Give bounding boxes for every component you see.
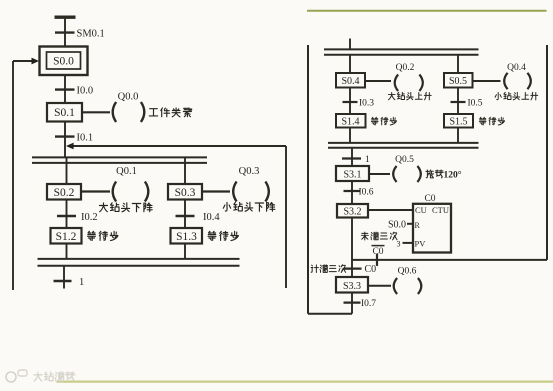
label 小钻头下降 xyxy=(223,203,230,212)
divergence double line xyxy=(32,156,207,158)
svg-text:C0: C0 xyxy=(424,194,435,204)
svg-text:120°: 120° xyxy=(444,170,462,181)
svg-text:I0.4: I0.4 xyxy=(203,212,220,223)
wire S0.0 to S0.1 xyxy=(64,75,66,103)
svg-text:3: 3 xyxy=(397,240,401,249)
wire S0.1 to coil xyxy=(82,111,110,113)
svg-text:Q0.0: Q0.0 xyxy=(118,92,139,103)
divergence double line xyxy=(324,48,479,50)
step S1.2 xyxy=(51,228,82,244)
label 等待步 xyxy=(479,117,486,125)
svg-text:S1.4: S1.4 xyxy=(341,116,359,127)
transition SM0.1 xyxy=(55,31,75,33)
svg-text:1: 1 xyxy=(365,155,370,165)
svg-text:S1.5: S1.5 xyxy=(449,116,467,127)
loopback wire (not-3-times) xyxy=(352,259,547,261)
svg-text:Q0.6: Q0.6 xyxy=(398,267,417,277)
green divider bottom xyxy=(57,381,553,383)
wire branch 1 xyxy=(349,55,351,73)
transition I0.2 xyxy=(57,215,76,217)
coil Q0.4 xyxy=(504,73,507,89)
label 小钻头上升 xyxy=(495,92,501,99)
wire S3.3 to coil xyxy=(368,285,391,287)
coil Q0.5 xyxy=(393,166,396,182)
label C0 overbar xyxy=(372,245,385,247)
svg-text:CU: CU xyxy=(415,205,427,215)
initial step S0.0 (double box) xyxy=(40,47,88,76)
svg-text:S3.2: S3.2 xyxy=(343,207,361,218)
entry stub xyxy=(349,39,351,51)
label 工件夹紧 xyxy=(149,109,157,116)
right loop wire xyxy=(546,45,548,260)
wire S0.2 to coil xyxy=(81,190,110,192)
transition I0.4 xyxy=(176,215,195,217)
step S3.3 xyxy=(336,277,368,293)
transition I0.0 xyxy=(55,88,75,90)
convergence double line xyxy=(38,258,240,260)
step S0.3 xyxy=(168,184,202,200)
step S0.5 xyxy=(444,73,473,88)
wire branch 2 xyxy=(184,157,186,184)
svg-text:S3.3: S3.3 xyxy=(343,281,361,292)
wire S3.1 to coil xyxy=(369,173,390,175)
wire below convergence xyxy=(63,266,65,289)
step S1.4 xyxy=(336,114,366,128)
svg-text:Q0.4: Q0.4 xyxy=(507,63,526,73)
step S1.3 xyxy=(171,228,203,244)
svg-text:S0.4: S0.4 xyxy=(341,76,359,87)
svg-text:CTU: CTU xyxy=(432,205,449,215)
svg-text:I0.0: I0.0 xyxy=(77,85,94,96)
svg-text:S0.0: S0.0 xyxy=(388,219,406,230)
transition I0.7 xyxy=(344,302,361,304)
svg-text:C0: C0 xyxy=(372,247,383,257)
counter C0 box (CTU) xyxy=(413,204,451,253)
svg-text:Q0.5: Q0.5 xyxy=(395,155,414,165)
svg-text:SM0.1: SM0.1 xyxy=(77,29,105,40)
return wire with arrow into I0.1 node xyxy=(73,145,286,147)
transition 1 xyxy=(54,280,72,282)
transition C0 xyxy=(344,268,362,270)
label 未满三次 xyxy=(361,232,368,240)
transition C0-bar xyxy=(376,254,378,266)
left diagram: initial rail bar xyxy=(55,16,76,19)
label 计满三次 xyxy=(311,265,318,273)
svg-text:I0.7: I0.7 xyxy=(361,299,376,309)
coil Q0.1 xyxy=(113,182,116,202)
step S3.1 xyxy=(336,166,369,181)
wire S0.3 to coil xyxy=(202,190,230,192)
svg-text:Q0.1: Q0.1 xyxy=(116,166,137,177)
label 大钻头上升 xyxy=(388,92,395,99)
step S3.2 xyxy=(337,204,368,218)
feedback wire left xyxy=(12,61,14,290)
label 大钻头下降 xyxy=(100,203,108,212)
label 等待步 xyxy=(88,231,96,240)
wire to S3.1 xyxy=(351,148,353,166)
svg-text:I0.5: I0.5 xyxy=(468,99,483,109)
transition 1 xyxy=(342,157,361,159)
bottom loop wire xyxy=(308,313,352,315)
svg-text:S0.1: S0.1 xyxy=(54,107,75,119)
watermark text xyxy=(34,372,42,381)
svg-text:S0.2: S0.2 xyxy=(54,187,75,199)
svg-text:S1.2: S1.2 xyxy=(56,231,77,243)
label 等待步 xyxy=(208,231,216,240)
svg-text:S1.3: S1.3 xyxy=(176,231,197,243)
transition I0.1 xyxy=(55,135,75,137)
wire S3.2 to counter CU xyxy=(368,209,413,211)
step S0.4 xyxy=(336,73,365,88)
svg-text:PV: PV xyxy=(415,239,427,249)
wire S0.5 to coil xyxy=(473,80,501,82)
step S1.5 xyxy=(444,114,473,128)
wire S0.4 to coil xyxy=(365,80,391,82)
step S0.1 xyxy=(47,103,82,122)
svg-text:S3.1: S3.1 xyxy=(343,170,361,181)
wire branch 1 xyxy=(66,157,68,184)
entry arrow into S0.0 xyxy=(13,60,32,62)
svg-text:R: R xyxy=(415,221,421,230)
watermark logo xyxy=(6,370,27,382)
coil Q0.3 xyxy=(233,182,236,202)
svg-text:1: 1 xyxy=(79,277,84,288)
label 等待步 xyxy=(371,117,378,125)
left loop wire xyxy=(307,45,309,314)
coil Q0.0 xyxy=(113,102,116,122)
transition I0.5 xyxy=(451,101,466,103)
step S0.2 xyxy=(47,184,81,200)
svg-text:I0.3: I0.3 xyxy=(359,99,374,109)
svg-text:Q0.2: Q0.2 xyxy=(396,63,415,73)
svg-text:S0.0: S0.0 xyxy=(53,55,74,67)
svg-text:S0.3: S0.3 xyxy=(175,187,196,199)
wire: rail to S0.0 xyxy=(64,17,66,47)
wire S3.2 down to S3.3 xyxy=(351,218,353,278)
convergence double line xyxy=(328,142,479,144)
svg-text:I0.1: I0.1 xyxy=(77,132,94,143)
svg-text:C0: C0 xyxy=(365,264,377,275)
svg-text:I0.2: I0.2 xyxy=(81,212,98,223)
wire branch 2 xyxy=(457,55,459,73)
label 旋转120° xyxy=(426,170,434,178)
svg-text:S0.5: S0.5 xyxy=(449,76,467,87)
svg-text:Q0.3: Q0.3 xyxy=(239,166,260,177)
green divider top xyxy=(307,10,547,12)
transition I0.6 xyxy=(344,190,361,192)
coil Q0.2 xyxy=(395,75,398,92)
coil Q0.6 xyxy=(394,278,397,294)
transition I0.3 xyxy=(343,101,358,103)
svg-text:I0.6: I0.6 xyxy=(359,188,374,198)
wire S0.1 down xyxy=(64,122,66,158)
